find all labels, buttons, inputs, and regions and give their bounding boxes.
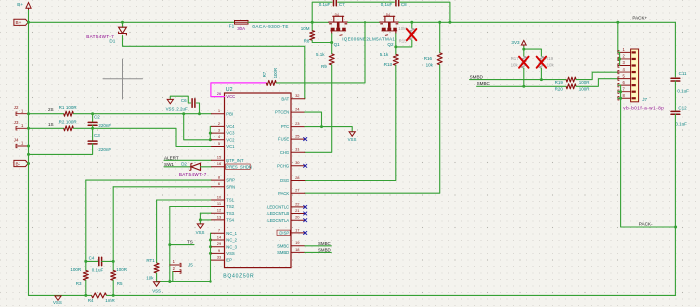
global label B- <box>14 160 28 166</box>
junction rail/R7 tap <box>364 21 366 23</box>
junction rail/J7 <box>616 21 619 24</box>
wire J2 to R1 <box>29 113 64 115</box>
junction C4 right <box>112 260 115 263</box>
wire EP to gnd run <box>210 260 212 281</box>
junction VC2 <box>209 138 212 141</box>
wire top mini rail <box>312 2 332 22</box>
resistor R16 10k <box>439 22 441 53</box>
pin 33 EP <box>212 259 225 261</box>
global label B+ <box>14 19 28 25</box>
pin 11 TS2 <box>212 206 225 208</box>
resistor R17 10k (DNP) <box>521 56 526 68</box>
junction R17/SMBC <box>522 85 525 88</box>
wire R3 to rail <box>85 280 87 295</box>
pin 17 DISP <box>291 232 305 234</box>
junction rail/D1 <box>121 21 124 24</box>
wire B+ rail to fuse <box>29 21 235 23</box>
capacitor C6 2.2uF <box>196 103 199 114</box>
pin 1 J7 <box>618 51 631 53</box>
resistor R2 100R <box>64 126 74 131</box>
junction Q1 gate/R8 <box>330 41 333 44</box>
resistor R18 10k (DNP) <box>539 56 544 68</box>
wire R15 to Q2 gate <box>396 40 412 47</box>
pin 23 PTC <box>291 126 305 128</box>
capacitor C4 0.1uF <box>86 260 99 262</box>
junction rail/C7 branch <box>311 21 314 24</box>
pin 18 SMBD <box>291 251 305 253</box>
wire 3V3 to R18 <box>524 49 542 56</box>
junction PBI line / VC chain <box>182 112 185 115</box>
op-amp U2 body <box>225 93 292 268</box>
pin 14 NC_2 <box>212 239 225 241</box>
wire SMBD stub <box>305 251 332 253</box>
ground VSS (TS) <box>197 224 203 228</box>
wire C3 bottom to rail <box>29 144 93 155</box>
pin 15 BTP_INT <box>212 159 225 161</box>
junction rail/J2 <box>27 112 30 115</box>
pin 10 TS1 <box>212 199 225 201</box>
wire TS3-TS4 tie to gnd <box>199 213 201 224</box>
junction Q2 gate/R15 <box>394 45 397 48</box>
wire between Q1 and Q2 <box>348 21 380 23</box>
capacitor C11 0.1uF <box>671 77 680 79</box>
pin 6 SRN <box>212 186 225 188</box>
pin 20 LEDCNTLA <box>291 219 305 221</box>
pin 22 LEDCNTLC <box>291 206 305 208</box>
junction rail/R16 <box>438 21 441 24</box>
resistor R19 100R <box>566 77 576 82</box>
resistor RT1 10k <box>154 263 159 273</box>
wire Q2 to right <box>399 21 676 23</box>
junction gnd run end <box>209 280 211 282</box>
wire J5 pin2 to gnd <box>172 272 174 282</box>
wire VC2 branch <box>184 114 212 140</box>
pin 31 CHG <box>291 151 305 153</box>
junction J7 pin7 <box>619 90 622 93</box>
junction VC3 <box>209 132 212 135</box>
wire bottom rail left <box>29 294 92 296</box>
pin 27 PACK <box>291 192 305 194</box>
pin 1 PBI <box>212 113 225 115</box>
junction rail/J3 <box>27 127 30 130</box>
wire VC4-VC3-VC2 tie <box>210 126 211 139</box>
resistor R13 5.1k <box>393 54 398 65</box>
wire left rail B+ to bottom <box>28 10 30 295</box>
wire TS2 down <box>169 207 171 282</box>
pin 16 PRES_SHDN <box>212 166 225 168</box>
resistor R7 100R <box>266 80 276 85</box>
capacitor C7 <box>333 0 335 6</box>
junction PTC <box>320 125 323 128</box>
wire TS1 <box>157 199 212 201</box>
junction rail/R3 <box>84 294 87 297</box>
connector J7 <box>631 49 639 102</box>
junction J7 pin2 <box>618 57 621 60</box>
resistor R1 100R <box>64 111 74 116</box>
wire SRN down to R5 <box>112 187 114 271</box>
pin 2 J7 <box>618 58 631 60</box>
junction TS <box>168 243 171 246</box>
pin 24 PTCEN <box>291 111 305 113</box>
junction TS2/gnd <box>168 280 171 283</box>
connector J5 <box>170 264 181 266</box>
junction TS4 <box>199 218 202 221</box>
pin 4 J7 <box>618 71 631 73</box>
junction PBI/C6 <box>198 112 201 115</box>
pin 3 VC3 <box>212 132 225 134</box>
wire R5 to rail <box>112 280 114 295</box>
junction rail/J4 <box>27 145 30 148</box>
resistor R20 100R <box>566 84 576 89</box>
pin 9 VSS <box>212 252 225 254</box>
resistor R3 100R <box>83 270 88 280</box>
wire C11 to C12 <box>674 81 676 110</box>
wire C7 to C8 <box>338 1 395 3</box>
wire R20 to J7 pin5 <box>576 79 618 87</box>
wire C12 to bottom rail <box>674 114 676 295</box>
wire J3 to R2 <box>29 127 64 129</box>
pin 13 TS4 <box>212 219 225 221</box>
wire R2 to VC1 <box>73 128 211 146</box>
wire rail down to C11 <box>674 22 676 77</box>
pin 12 TS3 <box>212 212 225 214</box>
ground VSS (bottom left) <box>55 296 61 300</box>
wire SMBC line <box>477 85 566 87</box>
wire TS1 down to RT1 <box>156 200 158 263</box>
wire R1 to PBI <box>73 113 211 115</box>
pin 4 VC2 <box>212 139 225 141</box>
wire D1 cathode to BAT pin <box>123 36 305 99</box>
pin 28 DSG <box>291 180 305 182</box>
junction C3 top <box>91 127 94 130</box>
diode D1 <box>119 27 127 33</box>
ground VSS (C6) <box>167 99 173 103</box>
wire VCC (highlighted) <box>212 96 225 98</box>
wire TS stub <box>170 244 194 246</box>
pin 7 NC_1 <box>212 232 225 234</box>
wire SRP <box>86 179 212 181</box>
wire Q1 gate down <box>331 34 333 54</box>
resistor R5 100R <box>111 270 116 280</box>
ground VSS (PTC) <box>349 132 355 136</box>
junction C2 top <box>91 112 94 115</box>
wire R13 to DSG <box>305 65 396 180</box>
wire D2 to PRES pin <box>201 166 212 168</box>
junction R18/SMBD <box>540 78 543 81</box>
resistor R8 10M <box>311 22 313 30</box>
wire NC chain <box>210 233 212 260</box>
pin 5 J7 <box>618 78 631 80</box>
pin 8 J7 <box>618 97 631 99</box>
wire ALERT to BTP_INT <box>164 159 212 161</box>
junction 3V3 <box>522 48 525 51</box>
wire D1 anode <box>122 22 124 27</box>
wire R17 to SMBC <box>523 68 525 86</box>
pin 2 VC4 <box>212 125 225 127</box>
junction rail/B+ <box>27 21 30 24</box>
pin 19 SMBC <box>291 245 305 247</box>
wire SRP down to R3 <box>85 180 87 270</box>
junction J7 pin8 <box>619 97 622 100</box>
pin 21 LEDCNTLB <box>291 213 305 215</box>
wire J7 pins 6-8 tie down to PACK- <box>621 85 676 227</box>
junction rail/R15 <box>410 21 413 24</box>
pin 26 VCC <box>212 96 225 98</box>
fuse F1 <box>235 21 249 25</box>
capacitor C2 220nF <box>92 114 94 123</box>
wire J7 pins 1-3 tie <box>619 52 621 65</box>
wire SRN <box>113 186 211 188</box>
wire SMBD line <box>470 79 566 81</box>
junction mini-rail drop <box>448 21 451 24</box>
pin 30 PCHG <box>291 165 305 167</box>
wire R9 to CHG <box>305 65 332 152</box>
wire C8 to rail drop <box>400 2 450 22</box>
pin 6 J7 <box>618 84 631 86</box>
junction C4 left <box>84 260 87 263</box>
wire bottom rail right <box>107 294 676 296</box>
wire SMBC stub <box>305 245 332 247</box>
wire R8 to Q1 gate <box>312 40 332 42</box>
wire R19 to J7 pin4 <box>576 72 618 79</box>
junction NC_2 <box>209 239 212 242</box>
junction PACK- column <box>674 226 677 229</box>
wire TS3 <box>200 212 211 214</box>
wire local gnd run <box>157 281 211 283</box>
pin 32 BAT <box>291 98 305 100</box>
capacitor C8 <box>395 0 397 6</box>
junction rail/C3 <box>27 153 30 156</box>
resistor R9 5.1k <box>329 54 334 65</box>
wire RT1 to gnd rail <box>156 273 158 282</box>
ground VSS (RT1) <box>154 282 160 286</box>
junction NC_3 <box>209 245 212 248</box>
junction rail/R5 <box>112 294 115 297</box>
pin 3 J7 <box>618 65 631 67</box>
wire R18 to SMBD <box>540 68 542 80</box>
capacitor C12 0.1uF <box>671 110 680 112</box>
capacitor C3 220nF <box>92 128 94 141</box>
pin 29 NC_3 <box>212 246 225 248</box>
pin 5 VC1 <box>212 146 225 148</box>
wire Q2 gate down <box>395 34 397 55</box>
wire R7 to mid-FET tap <box>276 22 365 83</box>
wire PTCEN <box>305 112 322 127</box>
wire TS2 <box>170 206 212 208</box>
wire fuse to Q1 <box>248 21 329 23</box>
diode D2 <box>191 163 201 170</box>
cursor crosshair <box>103 78 143 80</box>
wire PTC <box>305 127 352 132</box>
wire SW1 to D2 <box>164 166 191 168</box>
pin 25 FUSE <box>291 138 305 140</box>
junction VSS pin <box>209 252 212 255</box>
resistor R4 1mR <box>92 293 107 298</box>
wire TS4 <box>200 219 211 221</box>
wire R16 to PACK pin <box>305 65 440 193</box>
resistor R15 10M (DNP) <box>411 22 413 28</box>
wire 3V3 down <box>523 47 525 57</box>
pin 7 J7 <box>618 91 631 93</box>
wire rail down to J7 pin1 <box>618 22 620 52</box>
pin 8 SRP <box>212 179 225 181</box>
junction rail/B- <box>27 162 30 165</box>
